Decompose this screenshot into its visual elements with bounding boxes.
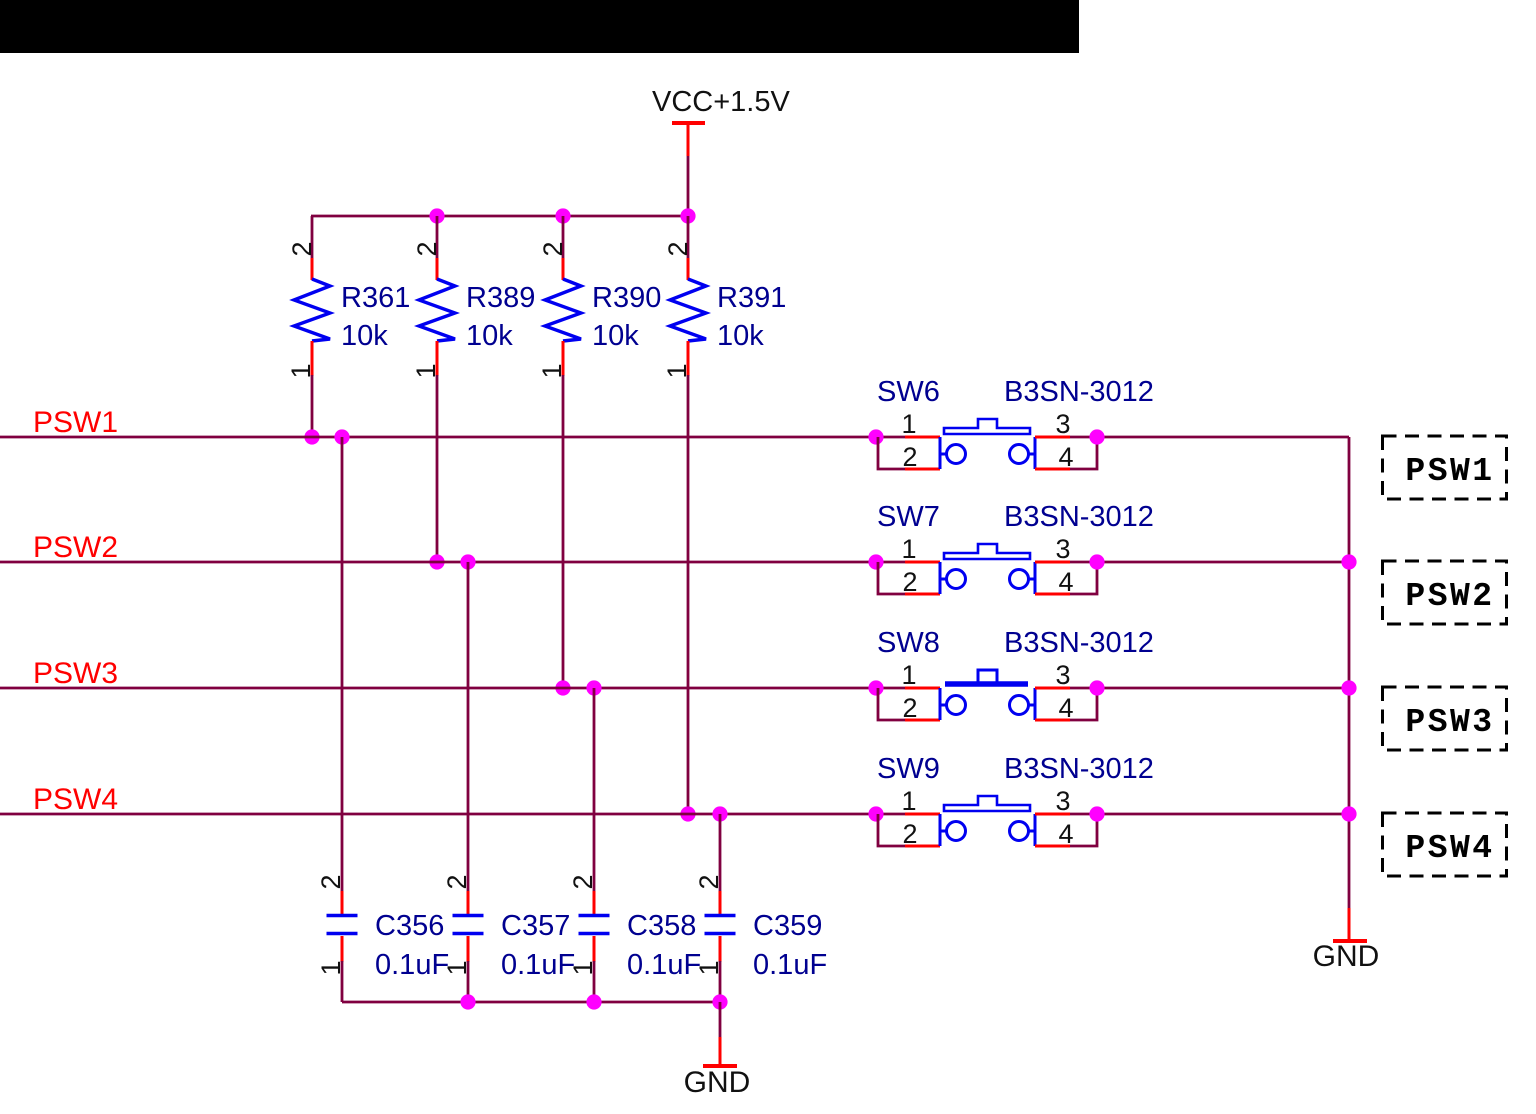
switch SW7 plunger — [944, 544, 1030, 559]
wire SW8 pin1-pin2 loop — [878, 688, 907, 720]
junction C356 branch / net at y=437 — [334, 429, 349, 444]
wire SW7 pin3-pin4 loop — [1070, 562, 1097, 594]
resistor R361 pin 1 lead — [311, 341, 314, 376]
svg-text:1: 1 — [901, 409, 916, 439]
svg-text:R389: R389 — [466, 282, 535, 314]
svg-text:SW7: SW7 — [877, 501, 940, 533]
svg-text:PSW1: PSW1 — [33, 406, 118, 439]
svg-text:B3SN-3012: B3SN-3012 — [1004, 501, 1154, 533]
wire C358 pin 2 to net — [593, 688, 596, 893]
switch SW9 pin 3 lead — [1035, 813, 1070, 816]
capacitor C357 pin 1 lead — [467, 936, 470, 962]
resistor R391 body — [670, 279, 706, 341]
junction right bus / PSW3 return — [1341, 680, 1356, 695]
power symbol VCC+1.5V — [652, 86, 790, 156]
switch SW6 pin 4 lead — [1035, 468, 1070, 471]
resistor R389 body — [419, 279, 455, 341]
svg-text:2: 2 — [442, 874, 472, 889]
svg-text:PSW3: PSW3 — [33, 657, 118, 690]
wire VCC to top bus — [687, 156, 690, 216]
svg-text:0.1uF: 0.1uF — [627, 949, 701, 981]
wire ground bus (capacitor pin-1 rail) — [342, 1001, 720, 1004]
junction ground bus / C359 / GND — [712, 994, 727, 1009]
svg-text:VCC+1.5V: VCC+1.5V — [652, 86, 790, 118]
svg-text:10k: 10k — [466, 320, 513, 352]
switch SW8 left contact — [940, 688, 966, 720]
junction top bus / R391 / VCC — [680, 208, 695, 223]
switch SW7 right contact — [1010, 562, 1036, 594]
svg-text:PSW3: PSW3 — [1405, 704, 1494, 741]
wire C359 pin 1 to ground bus — [719, 961, 722, 1002]
wire SW7 pin1-pin2 loop — [878, 562, 907, 594]
wire SW8 pin3-pin4 loop — [1070, 688, 1097, 720]
svg-text:GND: GND — [684, 1066, 751, 1099]
switch SW6 pin 2 lead — [905, 468, 940, 471]
switch SW7 left contact — [940, 562, 966, 594]
switch SW9 pin 2 lead — [905, 845, 940, 848]
svg-text:2: 2 — [902, 442, 917, 472]
resistor R389 pin 1 lead — [436, 341, 439, 376]
switch SW8 pin 2 lead — [905, 719, 940, 722]
svg-text:2: 2 — [902, 693, 917, 723]
switch SW7 pin 4 lead — [1035, 593, 1070, 596]
junction SW9 pin 3 / net — [1089, 806, 1104, 821]
resistor R390 body — [545, 279, 581, 341]
junction net / SW7 pin 1 — [868, 554, 883, 569]
off-page connector PSW4 — [1383, 813, 1507, 876]
svg-text:1: 1 — [901, 786, 916, 816]
junction top bus / R389 — [429, 208, 444, 223]
svg-text:10k: 10k — [717, 320, 764, 352]
svg-text:2: 2 — [902, 567, 917, 597]
svg-text:0.1uF: 0.1uF — [375, 949, 449, 981]
junction SW7 pin 3 / net — [1089, 554, 1104, 569]
svg-text:B3SN-3012: B3SN-3012 — [1004, 627, 1154, 659]
off-page connector PSW1 — [1383, 436, 1507, 499]
switch SW6 plunger — [944, 419, 1030, 434]
svg-text:R390: R390 — [592, 282, 661, 314]
svg-text:PSW2: PSW2 — [1405, 578, 1494, 615]
wire net PSW2 right segment — [1066, 561, 1349, 564]
switch SW8 right contact — [1010, 688, 1036, 720]
ground symbol GND (right) — [1313, 908, 1380, 973]
wire net PSW4 left segment — [0, 813, 912, 816]
svg-text:2: 2 — [902, 819, 917, 849]
capacitor C357 pin 2 lead — [467, 891, 470, 915]
capacitor C356 pin 2 lead — [341, 891, 344, 915]
capacitor C358 pin 2 lead — [593, 891, 596, 915]
switch SW8 pin 4 lead — [1035, 719, 1070, 722]
svg-text:3: 3 — [1055, 786, 1070, 816]
capacitor C358 top plate — [579, 914, 610, 917]
wire C357 pin 2 to net — [467, 562, 470, 893]
svg-text:2: 2 — [663, 241, 693, 256]
svg-text:0.1uF: 0.1uF — [501, 949, 575, 981]
junction net / SW8 pin 1 — [868, 680, 883, 695]
switch SW8 pin 1 lead — [905, 687, 940, 690]
switch SW7 pin 1 lead — [905, 561, 940, 564]
switch SW9 left contact — [940, 814, 966, 846]
svg-text:2: 2 — [694, 874, 724, 889]
wire net PSW1 left segment — [0, 436, 912, 439]
svg-text:1: 1 — [901, 534, 916, 564]
switch SW8 plunger — [945, 670, 1028, 684]
wire top bus to R389 pin 2 — [436, 216, 439, 259]
junction ground bus / C357 — [460, 994, 475, 1009]
svg-text:C356: C356 — [375, 910, 444, 942]
svg-text:B3SN-3012: B3SN-3012 — [1004, 376, 1154, 408]
svg-text:B3SN-3012: B3SN-3012 — [1004, 753, 1154, 785]
wire C356 pin 1 to ground bus — [341, 961, 344, 1002]
wire right bus to GND — [1348, 437, 1351, 909]
svg-text:SW9: SW9 — [877, 753, 940, 785]
switch SW9 pin 4 lead — [1035, 845, 1070, 848]
wire SW9 pin1-pin2 loop — [878, 814, 907, 846]
svg-text:C357: C357 — [501, 910, 570, 942]
wire R391 pin 1 to PSW4 — [687, 375, 690, 814]
wire C356 pin 2 to net — [341, 437, 344, 893]
capacitor C359 pin 2 lead — [719, 891, 722, 915]
junction R361 / PSW1 — [304, 429, 319, 444]
svg-text:PSW1: PSW1 — [1405, 453, 1494, 490]
wire C358 pin 1 to ground bus — [593, 961, 596, 1002]
wire R389 pin 1 to PSW2 — [436, 375, 439, 562]
svg-text:3: 3 — [1055, 660, 1070, 690]
wire R390 pin 1 to PSW3 — [562, 375, 565, 688]
svg-text:10k: 10k — [592, 320, 639, 352]
junction R391 / PSW4 — [680, 806, 695, 821]
junction top bus / R390 — [555, 208, 570, 223]
wire top bus to R390 pin 2 — [562, 216, 565, 259]
capacitor C359 bottom plate — [705, 932, 736, 935]
svg-text:GND: GND — [1313, 940, 1380, 973]
junction R390 / PSW3 — [555, 680, 570, 695]
capacitor C356 bottom plate — [327, 932, 358, 935]
svg-text:C358: C358 — [627, 910, 696, 942]
junction SW8 pin 3 / net — [1089, 680, 1104, 695]
switch SW7 pin 3 lead — [1035, 561, 1070, 564]
wire net PSW1 right segment — [1066, 436, 1349, 439]
wire net PSW4 right segment — [1066, 813, 1349, 816]
junction right bus / PSW2 return — [1341, 554, 1356, 569]
svg-text:2: 2 — [287, 241, 317, 256]
svg-text:C359: C359 — [753, 910, 822, 942]
svg-text:R391: R391 — [717, 282, 786, 314]
switch SW7 pin 2 lead — [905, 593, 940, 596]
junction right bus / PSW4 return — [1341, 806, 1356, 821]
wire SW9 pin3-pin4 loop — [1070, 814, 1097, 846]
svg-text:3: 3 — [1055, 534, 1070, 564]
wire ground bus to GND symbol — [719, 1002, 722, 1038]
svg-text:SW6: SW6 — [877, 376, 940, 408]
resistor R361 body — [294, 279, 330, 341]
svg-text:10k: 10k — [341, 320, 388, 352]
wire net PSW3 right segment — [1066, 687, 1349, 690]
resistor R391 pin 2 lead — [687, 258, 690, 280]
switch SW6 pin 1 lead — [905, 436, 940, 439]
junction SW6 pin 3 / net — [1089, 429, 1104, 444]
switch SW8 pin 3 lead — [1035, 687, 1070, 690]
junction net / SW6 pin 1 — [868, 429, 883, 444]
capacitor C359 top plate — [705, 914, 736, 917]
resistor R390 pin 2 lead — [562, 258, 565, 280]
wire net PSW3 left segment — [0, 687, 912, 690]
switch SW9 right contact — [1010, 814, 1036, 846]
capacitor C356 top plate — [327, 914, 358, 917]
junction R389 / PSW2 — [429, 554, 444, 569]
resistor R361 pin 2 lead — [311, 258, 314, 280]
svg-text:2: 2 — [316, 874, 346, 889]
capacitor C357 top plate — [453, 914, 484, 917]
junction C358 branch / net at y=688 — [586, 680, 601, 695]
junction C359 branch / net at y=814 — [712, 806, 727, 821]
resistor R391 pin 1 lead — [687, 341, 690, 376]
junction C357 branch / net at y=562 — [460, 554, 475, 569]
svg-text:PSW4: PSW4 — [1405, 830, 1494, 867]
off-page connector PSW2 — [1383, 561, 1507, 624]
switch SW9 plunger — [944, 796, 1030, 811]
svg-text:2: 2 — [568, 874, 598, 889]
wire top bus to R391 pin 2 — [687, 216, 690, 259]
switch SW9 pin 1 lead — [905, 813, 940, 816]
wire C359 pin 2 to net — [719, 814, 722, 893]
svg-text:2: 2 — [538, 241, 568, 256]
svg-text:3: 3 — [1055, 409, 1070, 439]
redacted title block — [0, 0, 1079, 53]
svg-text:R361: R361 — [341, 282, 410, 314]
capacitor C358 pin 1 lead — [593, 936, 596, 962]
switch SW6 left contact — [940, 437, 966, 469]
switch SW6 right contact — [1010, 437, 1036, 469]
wire top bus (resistor pin-2 rail) — [311, 215, 688, 218]
wire SW6 pin1-pin2 loop — [878, 437, 907, 469]
junction ground bus / C358 — [586, 994, 601, 1009]
resistor R390 pin 1 lead — [562, 341, 565, 376]
capacitor C358 bottom plate — [579, 932, 610, 935]
wire net PSW2 left segment — [0, 561, 912, 564]
switch SW6 pin 3 lead — [1035, 436, 1070, 439]
capacitor C356 pin 1 lead — [341, 936, 344, 962]
wire top bus to R361 pin 2 — [311, 216, 314, 259]
wire R361 pin 1 to PSW1 — [311, 375, 314, 437]
svg-text:SW8: SW8 — [877, 627, 940, 659]
capacitor C357 bottom plate — [453, 932, 484, 935]
svg-text:PSW4: PSW4 — [33, 783, 118, 816]
wire C357 pin 1 to ground bus — [467, 961, 470, 1002]
resistor R389 pin 2 lead — [436, 258, 439, 280]
svg-text:2: 2 — [412, 241, 442, 256]
junction net / SW9 pin 1 — [868, 806, 883, 821]
off-page connector PSW3 — [1383, 687, 1507, 750]
svg-text:1: 1 — [901, 660, 916, 690]
svg-text:PSW2: PSW2 — [33, 531, 118, 564]
capacitor C359 pin 1 lead — [719, 936, 722, 962]
wire SW6 pin3-pin4 loop — [1070, 437, 1097, 469]
svg-text:0.1uF: 0.1uF — [753, 949, 827, 981]
ground symbol GND (bottom) — [684, 1037, 751, 1099]
